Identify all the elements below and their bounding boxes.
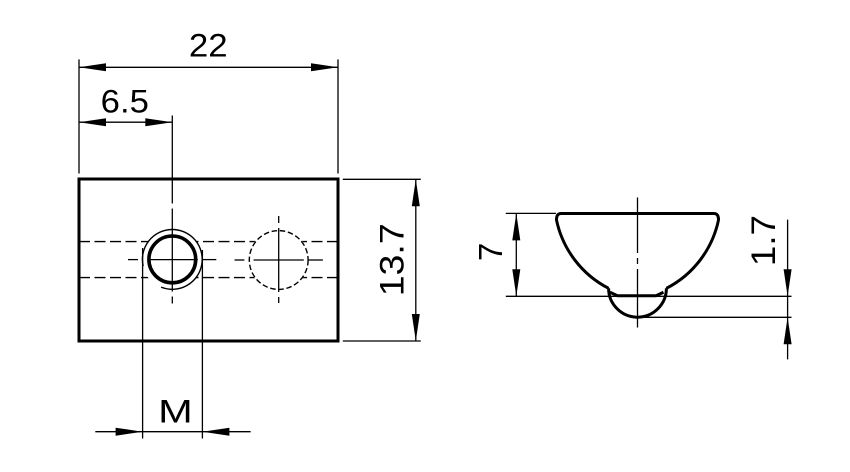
- dimension 13.7: extension lines: [343, 179, 421, 341]
- centerline vertical hole 2: [278, 216, 280, 303]
- dimension 1.7: lower extension line: [634, 316, 792, 318]
- centerline horizontal hole 2: [235, 259, 323, 261]
- side view ball (protruding arc): [609, 288, 667, 317]
- centerline horizontal hole 1: [128, 259, 216, 261]
- dimension 1.7: dimension line with inward arrows: [787, 220, 789, 360]
- hidden slot edge line upper (dashed): [79, 242, 338, 278]
- side view body outline: [556, 214, 718, 289]
- dimension M: dimension line with inward arrows: [95, 431, 250, 433]
- dimension 6.5: dimension line with outward arrows: [79, 121, 172, 123]
- centerline vertical hole 1 / extension of 6.5 dim: [171, 116, 173, 304]
- dimension M: extension lines: [143, 248, 203, 439]
- dimension 22: extension lines: [79, 59, 338, 173]
- svg-text:1.7: 1.7: [745, 215, 783, 266]
- side view flat bottom edge with chamfers: [610, 292, 664, 295]
- svg-text:22: 22: [189, 28, 228, 64]
- dimension 13.7: dimension line with outward arrows: [415, 179, 417, 341]
- hidden hole H2 (dashed circle): [249, 231, 308, 290]
- threaded hole H1 bore circle (thick): [149, 236, 196, 283]
- svg-text:M: M: [158, 394, 193, 430]
- dimension 7: extension lines: [506, 213, 792, 296]
- body outline rectangle: [79, 179, 338, 341]
- side view centerline (dash-dot vertical): [637, 198, 639, 328]
- dimension 22: dimension line with outward arrows: [79, 66, 338, 68]
- white knockouts for holes: [142, 229, 203, 290]
- svg-text:7: 7: [472, 243, 509, 261]
- dimension 7: dimension line with outward arrows: [515, 213, 517, 296]
- svg-text:13.7: 13.7: [373, 223, 411, 296]
- svg-text:6.5: 6.5: [101, 84, 149, 120]
- threaded hole H1 thread arc (thin, with gap lower-left): [142, 229, 202, 289]
